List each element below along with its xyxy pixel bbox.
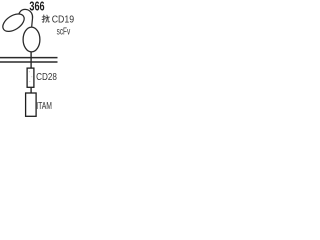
- scFv VL domain (vertical ellipse): [23, 27, 40, 52]
- wire: connector CD28 to ITAM: [30, 88, 32, 94]
- CAR construct diagram 366: [0, 0, 175, 120]
- svg-text:ITAM: ITAM: [36, 101, 52, 112]
- membrane line 1: [0, 57, 58, 59]
- scFv VH domain (tilted ellipse): [0, 10, 27, 35]
- ITAM domain box: [26, 93, 36, 116]
- wire: stalk from VL to CD28 box through membrane: [30, 52, 32, 69]
- speckles inside CD28 box: [29, 71, 32, 82]
- svg-text:366: 366: [29, 0, 44, 13]
- membrane line 2: [0, 61, 58, 63]
- svg-text:scFv: scFv: [57, 26, 71, 37]
- scFv linker arc: [19, 9, 33, 26]
- CD28 domain box: [27, 68, 34, 87]
- svg-text:CD19: CD19: [52, 15, 75, 26]
- label anti-CD19 (抗 glyph drawn as paths): [42, 15, 49, 22]
- svg-text:CD28: CD28: [36, 72, 57, 83]
